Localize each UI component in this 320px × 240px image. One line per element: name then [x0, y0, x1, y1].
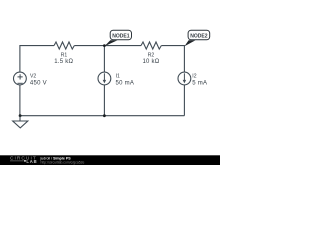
resistor R2	[141, 42, 161, 49]
svg-text:V2: V2	[30, 74, 36, 80]
wire R2 to top-right corner down to I2	[161, 46, 184, 73]
wire V2 bottom	[19, 85, 21, 116]
current source I2	[178, 72, 191, 85]
wire I2 bottom	[183, 85, 185, 116]
svg-text:50 mA: 50 mA	[116, 81, 135, 87]
svg-text:10 kΩ: 10 kΩ	[142, 59, 159, 65]
bottom wire	[20, 115, 185, 117]
V2 minus sign	[18, 82, 23, 84]
svg-text:5 mA: 5 mA	[192, 81, 207, 87]
node NODE1 tag tail	[105, 40, 118, 46]
svg-text:NODE1: NODE1	[112, 34, 130, 40]
wire NODE1 vertical to I1	[103, 46, 105, 73]
node NODE2 tag	[188, 30, 210, 40]
wire top-left corner from V2 up and right to R1	[20, 46, 54, 73]
CircuitLab logo square	[24, 160, 26, 162]
junction dot ground node	[19, 114, 22, 117]
watermark bar	[0, 155, 220, 165]
svg-text:I2: I2	[192, 74, 196, 80]
junction dot I1 bottom	[103, 114, 106, 117]
I1 arrow	[103, 73, 105, 80]
node NODE1 junction dot	[103, 44, 106, 47]
voltage source V2	[14, 72, 27, 85]
svg-text:http://circuitlab.com/c/gca52e: http://circuitlab.com/c/gca52e	[41, 161, 85, 165]
svg-text:NODE2: NODE2	[190, 34, 208, 40]
ground stub	[19, 116, 21, 121]
svg-text:R1: R1	[61, 53, 68, 59]
node NODE2 tag tail	[185, 40, 196, 46]
svg-text:LAB: LAB	[26, 159, 37, 164]
ground triangle	[13, 121, 28, 128]
CircuitLab logo line	[10, 160, 24, 162]
svg-text:R2: R2	[148, 53, 155, 59]
wire between R1 and R2	[74, 45, 141, 47]
wire I1 bottom	[103, 85, 105, 116]
svg-text:450 V: 450 V	[30, 81, 47, 87]
I2 arrow	[183, 73, 185, 80]
node NODE1 tag	[110, 30, 131, 40]
svg-text:1.5 kΩ: 1.5 kΩ	[54, 59, 73, 65]
V2 plus sign	[18, 74, 23, 79]
resistor R1	[54, 42, 74, 49]
svg-text:I1: I1	[116, 74, 120, 80]
current source I1	[98, 72, 111, 85]
